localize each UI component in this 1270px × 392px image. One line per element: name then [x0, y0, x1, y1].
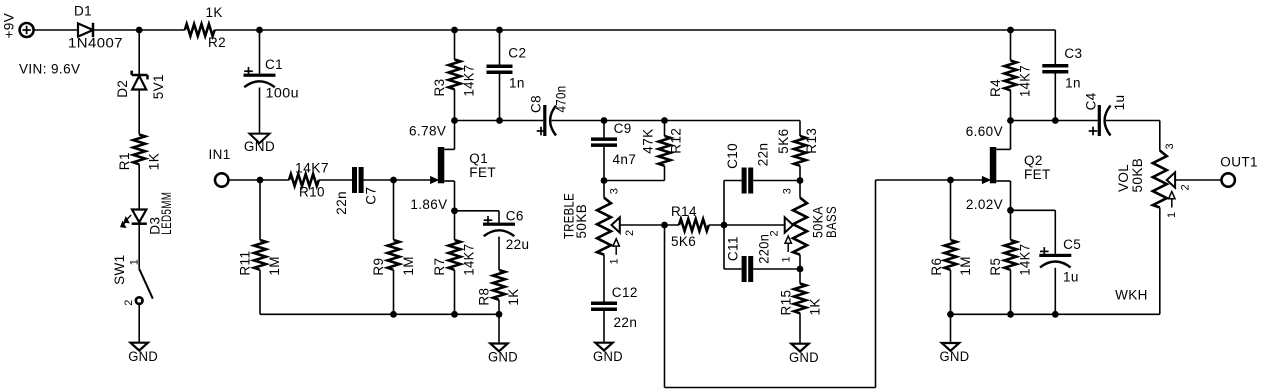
svg-text:R5: R5	[988, 258, 1003, 276]
svg-text:2: 2	[1180, 184, 1192, 191]
svg-text:R1: R1	[117, 152, 132, 170]
svg-text:1n: 1n	[1065, 76, 1081, 91]
svg-text:22n: 22n	[334, 191, 349, 215]
svg-text:14K7: 14K7	[1017, 244, 1032, 276]
svg-text:R14: R14	[671, 204, 697, 219]
svg-text:2: 2	[769, 230, 781, 237]
svg-text:1M: 1M	[958, 256, 973, 276]
svg-text:C8: C8	[529, 95, 544, 113]
svg-text:C4: C4	[1083, 92, 1098, 110]
svg-text:GND: GND	[488, 350, 518, 365]
svg-text:R4: R4	[988, 79, 1003, 97]
svg-text:VOL: VOL	[1116, 164, 1131, 192]
svg-text:R9: R9	[371, 258, 386, 276]
svg-text:GND: GND	[789, 350, 819, 365]
svg-text:GND: GND	[593, 349, 623, 364]
svg-text:50KB: 50KB	[574, 204, 589, 239]
svg-text:C1: C1	[265, 57, 283, 72]
svg-text:C9: C9	[614, 121, 632, 136]
svg-text:GND: GND	[244, 139, 275, 154]
svg-text:14K7: 14K7	[295, 160, 329, 175]
svg-text:R6: R6	[929, 258, 944, 276]
svg-text:22u: 22u	[506, 237, 530, 252]
svg-text:BASS: BASS	[824, 206, 839, 238]
svg-text:Q1: Q1	[469, 151, 488, 166]
svg-text:220n: 220n	[757, 234, 772, 264]
svg-text:R2: R2	[208, 35, 226, 50]
svg-text:22n: 22n	[756, 143, 771, 167]
svg-text:D1: D1	[74, 4, 92, 19]
svg-text:5K6: 5K6	[776, 128, 791, 153]
svg-text:IN1: IN1	[209, 147, 231, 162]
svg-text:GND: GND	[940, 349, 970, 364]
svg-text:3: 3	[609, 188, 621, 195]
svg-text:R12: R12	[669, 128, 684, 154]
svg-text:5K6: 5K6	[671, 234, 696, 249]
svg-text:VIN: 9.6V: VIN: 9.6V	[19, 62, 80, 77]
svg-text:GND: GND	[128, 349, 158, 364]
svg-text:14K7: 14K7	[461, 65, 476, 97]
svg-text:R3: R3	[432, 78, 447, 96]
svg-text:1: 1	[129, 259, 141, 266]
svg-text:2: 2	[123, 299, 135, 306]
svg-text:LED5MM: LED5MM	[159, 192, 174, 235]
svg-text:C10: C10	[725, 143, 740, 169]
svg-text:WKH: WKH	[1115, 288, 1148, 303]
svg-text:R10: R10	[299, 185, 325, 200]
svg-text:1u: 1u	[1112, 95, 1127, 111]
svg-text:D2: D2	[115, 80, 130, 98]
svg-text:1: 1	[1166, 211, 1178, 218]
svg-text:470n: 470n	[554, 86, 569, 113]
svg-text:3: 3	[782, 188, 794, 195]
svg-text:1K: 1K	[506, 288, 521, 305]
svg-text:1n: 1n	[509, 76, 525, 91]
svg-text:6.60V: 6.60V	[966, 124, 1003, 139]
svg-text:1u: 1u	[1063, 270, 1079, 285]
svg-text:100u: 100u	[266, 85, 300, 100]
svg-text:C11: C11	[726, 236, 741, 261]
svg-text:6.78V: 6.78V	[409, 124, 446, 139]
svg-text:1: 1	[781, 256, 793, 263]
svg-text:C12: C12	[612, 285, 638, 300]
svg-text:R13: R13	[804, 128, 819, 154]
svg-text:R11: R11	[238, 251, 253, 276]
svg-text:1K: 1K	[147, 153, 162, 170]
svg-text:Q2: Q2	[1024, 153, 1043, 168]
svg-text:R8: R8	[477, 288, 492, 306]
svg-text:C6: C6	[506, 208, 524, 223]
svg-text:47K: 47K	[641, 128, 656, 153]
svg-text:1M: 1M	[401, 256, 416, 276]
svg-text:C2: C2	[508, 46, 526, 61]
svg-text:3: 3	[1164, 143, 1176, 150]
svg-text:2.02V: 2.02V	[966, 197, 1003, 212]
svg-text:C7: C7	[364, 187, 379, 205]
svg-text:R15: R15	[779, 290, 794, 316]
svg-text:2: 2	[624, 229, 636, 236]
svg-text:FET: FET	[1024, 167, 1051, 182]
svg-text:C5: C5	[1063, 237, 1081, 252]
svg-text:1.86V: 1.86V	[410, 197, 447, 212]
svg-text:14K7: 14K7	[461, 244, 476, 276]
svg-text:14K7: 14K7	[1017, 65, 1032, 97]
svg-text:C3: C3	[1064, 46, 1082, 61]
svg-text:4n7: 4n7	[613, 152, 637, 167]
svg-text:1M: 1M	[267, 256, 282, 276]
svg-text:22n: 22n	[614, 315, 638, 330]
svg-text:1K: 1K	[808, 298, 823, 315]
svg-text:SW1: SW1	[112, 254, 127, 284]
svg-text:5V1: 5V1	[151, 74, 166, 99]
svg-text:1N4007: 1N4007	[68, 36, 123, 51]
svg-text:+9V: +9V	[2, 13, 17, 39]
svg-text:FET: FET	[469, 165, 496, 180]
svg-text:OUT1: OUT1	[1220, 155, 1258, 170]
svg-text:50KB: 50KB	[1130, 158, 1145, 193]
svg-text:R7: R7	[432, 258, 447, 276]
svg-text:1K: 1K	[206, 5, 223, 20]
svg-text:1: 1	[609, 258, 621, 265]
